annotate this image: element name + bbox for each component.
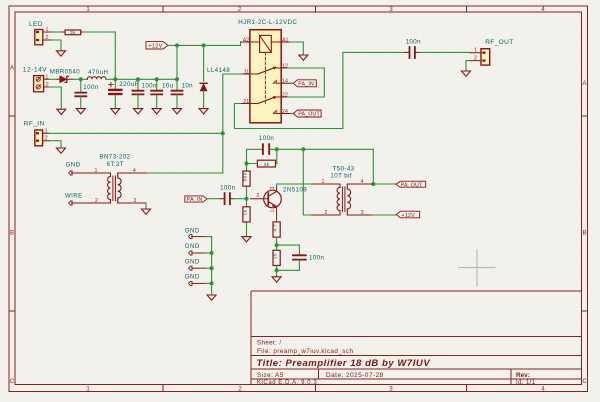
wire gnd1 [205, 236, 212, 238]
svg-text:GND: GND [185, 243, 200, 250]
svg-text:100n: 100n [83, 84, 99, 91]
title block [251, 291, 582, 385]
svg-text:2: 2 [325, 210, 328, 216]
capacitor 100n (rail 2) [133, 79, 158, 114]
resistor 3k (LED) [62, 30, 84, 36]
wire gnd2 [205, 252, 212, 254]
resistor 560 (bias upper) [242, 164, 250, 199]
svg-text:WIRE: WIRE [65, 193, 83, 200]
svg-text:1: 1 [322, 179, 325, 185]
svg-text:Rev:: Rev: [516, 372, 530, 379]
capacitor 100n (feedback) [247, 135, 277, 163]
svg-text:4: 4 [133, 168, 136, 174]
ground (RF_IN) [57, 148, 66, 153]
svg-text:PA_OUT: PA_OUT [298, 112, 320, 118]
svg-text:470uH: 470uH [88, 69, 108, 76]
svg-text:3: 3 [133, 198, 136, 204]
svg-text:T50-43: T50-43 [333, 166, 355, 173]
capacitor 10n [172, 79, 194, 114]
transformer T T50-43 10T bif [312, 166, 374, 217]
svg-text:Id: 1/1: Id: 1/1 [516, 380, 536, 386]
wire gnd stack vertical [211, 237, 213, 295]
svg-text:1: 1 [45, 128, 48, 134]
svg-text:3: 3 [361, 210, 364, 216]
svg-text:1: 1 [270, 209, 276, 212]
svg-text:GND: GND [185, 259, 200, 266]
svg-text:PA_IN: PA_IN [298, 82, 314, 88]
hierarchical label WIRE (BN73 pin2) [65, 193, 83, 205]
svg-text:100n: 100n [406, 39, 422, 46]
svg-text:LED: LED [29, 21, 43, 28]
svg-text:6T:2T: 6T:2T [107, 161, 124, 168]
svg-text:B: B [582, 231, 586, 237]
svg-text:1: 1 [95, 168, 98, 174]
node rail junctions [113, 77, 117, 81]
svg-text:220uF: 220uF [119, 81, 139, 88]
svg-text:MBR0540: MBR0540 [50, 69, 80, 76]
svg-text:3: 3 [270, 186, 276, 189]
hierarchical label GND 3 [185, 259, 205, 271]
node emitter junction 1 [275, 243, 279, 247]
wire junction down to BN73 pin4 [146, 133, 223, 173]
wire gnd4 [205, 282, 212, 284]
svg-text:Size: A5: Size: A5 [257, 372, 284, 379]
ground (stack) [207, 295, 216, 300]
resistor 4.7 (emitter) [273, 219, 281, 246]
capacitor 100n (input coupling) [220, 185, 236, 205]
wire junction to rail [176, 45, 178, 79]
ground (emitter) [272, 277, 281, 282]
node base junction [245, 197, 249, 201]
svg-text:100n: 100n [309, 255, 325, 262]
svg-text:3k: 3k [264, 162, 270, 168]
wire cap to RF_OUT pin1 [419, 51, 470, 53]
connector J LED [29, 21, 52, 45]
svg-text:2: 2 [474, 56, 477, 62]
svg-text:10: 10 [273, 253, 279, 259]
svg-text:Title: Preamplifier 18 dB by W: Title: Preamplifier 18 dB by W7IUV [257, 358, 431, 369]
svg-text:10n: 10n [182, 83, 194, 90]
svg-text:RF_OUT: RF_OUT [485, 39, 513, 46]
svg-text:GND: GND [66, 162, 81, 169]
wire pin12 pin22 loop [287, 68, 324, 97]
node junctions [301, 147, 305, 151]
svg-text:2: 2 [46, 35, 49, 41]
svg-text:RF_IN: RF_IN [24, 120, 45, 127]
svg-text:Date: 2025-07-28: Date: 2025-07-28 [326, 372, 384, 379]
svg-text:3k: 3k [70, 30, 76, 36]
svg-text:A: A [10, 66, 14, 72]
capacitor 100n (RF_OUT coupling) [405, 39, 421, 58]
svg-text:100n: 100n [142, 83, 158, 90]
svg-text:4.7: 4.7 [273, 224, 279, 232]
svg-text:100n: 100n [259, 135, 275, 142]
svg-text:File: preamp_w7iuv.kicad_sch: File: preamp_w7iuv.kicad_sch [257, 348, 353, 355]
connector RF_OUT [470, 39, 514, 65]
diode MBR0540 [50, 69, 80, 83]
power label +12V [146, 42, 168, 50]
resistor 3k (feedback) [247, 160, 277, 168]
svg-text:4: 4 [361, 179, 364, 185]
wire collector to T50 pin1 [277, 184, 312, 186]
node gnd stack junctions [210, 251, 214, 255]
node feedback-collector junction [275, 147, 279, 151]
ground (BN73 pin3) [142, 209, 151, 214]
wire A1 to ground [290, 42, 303, 55]
wire +12V run to relay A2 [177, 42, 241, 45]
svg-text:560: 560 [242, 172, 248, 181]
diode LL4148 (coil clamp) [199, 45, 230, 114]
svg-text:+12V: +12V [148, 44, 162, 50]
wire PA_IN to coupling cap [207, 198, 221, 200]
svg-text:11: 11 [244, 69, 250, 75]
wire pin11 to RF_IN net [223, 74, 241, 133]
capacitor 220uF polarized [109, 79, 139, 114]
wire RF_OUT pin2 to ground [466, 61, 470, 71]
crosshair cursor [458, 249, 496, 287]
wire LED pin2 to ground [52, 40, 61, 51]
svg-text:A1: A1 [282, 37, 289, 43]
relay K HJR1-2C-L-12VDC [238, 19, 297, 123]
capacitor 100n (input) [75, 79, 99, 114]
global label PA_IN (relay) [293, 80, 316, 88]
wire pin1 to diode [49, 78, 57, 80]
svg-text:2: 2 [257, 193, 260, 199]
global label PA_OUT (output) [396, 181, 426, 188]
ground (LED) [57, 51, 66, 56]
svg-text:PA_OUT: PA_OUT [401, 182, 423, 188]
svg-text:LL4148: LL4148 [207, 67, 230, 74]
wire pin24 to PA_OUT label [291, 113, 293, 115]
svg-text:A: A [582, 81, 586, 87]
svg-text:1: 1 [474, 48, 477, 54]
node RF_IN junction [221, 131, 225, 135]
hierarchical label GND 2 [185, 243, 205, 255]
capacitor 10u [151, 79, 173, 114]
resistor 10 (emitter) [273, 245, 281, 277]
svg-text:2: 2 [46, 82, 49, 88]
svg-text:14: 14 [282, 79, 288, 85]
svg-text:C: C [582, 379, 587, 385]
ground (12-14V pin2) [57, 109, 66, 114]
svg-text:GND: GND [185, 228, 200, 235]
hierarchical label GND (BN73 pin1) [66, 162, 81, 176]
wire LED pin1 to R 3k [52, 31, 62, 33]
svg-text:PA_IN: PA_IN [187, 197, 203, 203]
svg-text:1: 1 [46, 27, 49, 33]
wire R 3k to +12V rail [84, 32, 116, 79]
global label PA_IN (amp input) [185, 196, 207, 203]
wire RF_IN pin1 run [49, 132, 222, 134]
svg-text:10u: 10u [162, 83, 174, 90]
svg-text:C: C [10, 379, 15, 385]
wire cap to base node [234, 198, 247, 200]
svg-text:10T bif: 10T bif [330, 173, 352, 180]
node +12V junction 2 [202, 43, 206, 47]
wire RF_IN pin2 to ground [49, 141, 61, 148]
wire tap to PA_OUT [373, 183, 396, 185]
connector 12-14V (screw terminal) [23, 66, 50, 92]
resistor 1k (bias lower) [242, 199, 250, 237]
svg-text:1k: 1k [242, 209, 248, 215]
wire gnd3 [205, 267, 212, 269]
hierarchical label GND 1 [185, 228, 205, 239]
wire diode to rail junction [73, 78, 81, 80]
svg-text:B: B [10, 231, 14, 237]
node emitter junction 2 [275, 268, 279, 272]
node +12V junction 1 [175, 43, 179, 47]
svg-text:A2: A2 [243, 37, 250, 43]
power label +12V (output side) [396, 211, 419, 219]
hierarchical label GND 4 [185, 274, 205, 286]
svg-text:HJR1-2C-L-12VDC: HJR1-2C-L-12VDC [238, 19, 297, 26]
ground (relay A1) [299, 55, 308, 60]
svg-text:1: 1 [45, 74, 48, 80]
ground (bias) [242, 237, 251, 242]
wire BN73 pin3 to ground [145, 203, 147, 209]
wire pin2 to ground [49, 87, 61, 109]
svg-text:2: 2 [95, 198, 98, 204]
wire pin21 to RF_OUT run [234, 52, 405, 128]
svg-text:100n: 100n [220, 185, 236, 192]
node bias junction [245, 162, 249, 166]
capacitor 100n (emitter bypass) [277, 245, 325, 270]
wire +12V to junction [168, 44, 177, 46]
svg-text:21: 21 [243, 99, 249, 105]
inductor 470uH [81, 69, 116, 79]
svg-text:24: 24 [282, 109, 288, 115]
transistor Q 2N5109 [251, 186, 308, 219]
wire T50 pin3 to +12V [373, 214, 396, 216]
wire +12V rail [115, 78, 177, 80]
svg-text:2: 2 [45, 136, 48, 142]
transformer T BN73-202 6T:2T [72, 154, 147, 205]
svg-text:GND: GND [185, 274, 200, 281]
svg-text:KiCad E.D.A. 9.0.3: KiCad E.D.A. 9.0.3 [257, 380, 317, 386]
global label PA_OUT (relay) [293, 110, 321, 118]
wire feedback node to T50 taps [277, 149, 374, 215]
connector RF_IN [24, 120, 50, 145]
wire pin14 to PA_IN label [291, 82, 293, 84]
svg-text:12-14V: 12-14V [23, 66, 47, 73]
svg-text:Sheet: /: Sheet: / [257, 340, 282, 347]
svg-text:BN73-202: BN73-202 [99, 154, 130, 161]
node rail junction diode [79, 77, 83, 81]
svg-text:+12V: +12V [402, 213, 416, 219]
ground (RF_OUT) [462, 71, 471, 76]
